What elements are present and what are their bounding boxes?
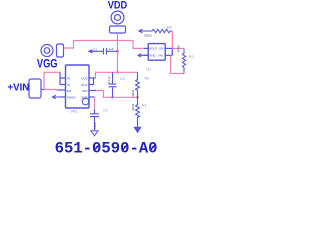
wire EN to R3 bbox=[172, 47, 184, 49]
pin VR1 OUT1 bbox=[89, 77, 96, 79]
svg-text:1uF: 1uF bbox=[108, 47, 113, 51]
pin +VIN bbox=[41, 89, 46, 91]
text VR1 pins left bbox=[67, 76, 76, 99]
pin VR1 IN2 bbox=[60, 84, 66, 86]
svg-text:VDD: VDD bbox=[108, 0, 128, 12]
resistor R1 bbox=[136, 97, 140, 124]
wire R4 to EN bbox=[171, 31, 173, 48]
svg-text:ADJ: ADJ bbox=[82, 89, 88, 93]
net flag arrow GND pin4 bbox=[53, 95, 66, 98]
wire VDD vertical bbox=[117, 33, 119, 72]
wire ADJ jog to bus bbox=[96, 91, 138, 98]
title part number bbox=[55, 140, 158, 158]
svg-text:C4: C4 bbox=[120, 77, 125, 81]
pin U1 VIN bbox=[165, 54, 172, 56]
slash zero marks bbox=[94, 144, 156, 151]
text U1 pins bbox=[149, 47, 163, 58]
pin U1 EN bbox=[165, 47, 172, 49]
svg-text:49R9: 49R9 bbox=[177, 45, 181, 53]
wire +VIN to IC bbox=[44, 72, 60, 89]
svg-text:.01uF: .01uF bbox=[93, 122, 97, 130]
node junction bus/R2 bbox=[136, 96, 139, 99]
node junction bus/C2 bbox=[111, 96, 114, 99]
capacitor C4 bbox=[109, 72, 117, 97]
pin VR1 EN bbox=[57, 89, 66, 91]
svg-text:R3: R3 bbox=[189, 55, 194, 59]
wire OUT to VDD node bbox=[96, 72, 138, 78]
svg-text:U1: U1 bbox=[147, 68, 152, 72]
connector J VGG bbox=[41, 44, 64, 57]
svg-text:IN: IN bbox=[67, 83, 70, 87]
ground C2 bbox=[91, 131, 98, 136]
svg-text:OUT: OUT bbox=[81, 83, 88, 87]
svg-text:EN: EN bbox=[160, 47, 164, 51]
connector J +VIN bbox=[29, 79, 41, 98]
wire tie EN-VIN bbox=[171, 48, 173, 55]
net flag arrow C1 bbox=[89, 50, 96, 53]
svg-text:EN: EN bbox=[67, 89, 71, 93]
svg-text:49R9: 49R9 bbox=[131, 103, 135, 111]
pin U1 VOUT bbox=[144, 47, 148, 49]
resistor R3 bbox=[182, 48, 185, 73]
pad circle VR1 bbox=[82, 98, 89, 105]
wire VIN loop to R3 bottom bbox=[171, 55, 185, 73]
IC VR1 regulator bbox=[66, 65, 90, 108]
net flag arrow U1 GND bbox=[138, 54, 148, 57]
connector J VDD bbox=[110, 11, 126, 33]
svg-text:0.1uF: 0.1uF bbox=[107, 76, 111, 84]
svg-text:BYP: BYP bbox=[81, 95, 87, 99]
svg-text:+VIN: +VIN bbox=[8, 83, 30, 94]
svg-text:IN: IN bbox=[67, 76, 70, 80]
svg-text:GND: GND bbox=[149, 54, 155, 58]
pin VR1 BYP bbox=[89, 96, 95, 98]
svg-text:R1: R1 bbox=[142, 103, 147, 107]
resistor R4 horizontal bbox=[146, 29, 172, 33]
wire tie IN1-IN2 bbox=[59, 72, 61, 84]
svg-text:R2: R2 bbox=[145, 77, 150, 81]
pin U1 GND bbox=[144, 54, 149, 56]
svg-text:C2: C2 bbox=[103, 109, 108, 113]
wire VGG run bbox=[64, 41, 145, 49]
svg-text:49R9: 49R9 bbox=[131, 89, 135, 97]
ground R1 bbox=[134, 124, 140, 132]
wire BYP to C2 bbox=[94, 97, 96, 110]
svg-text:VR1: VR1 bbox=[71, 110, 78, 114]
svg-text:651-0590-A0: 651-0590-A0 bbox=[55, 140, 158, 158]
wire tie OUT1-OUT2 bbox=[93, 78, 95, 85]
svg-text:SHDN: SHDN bbox=[67, 95, 76, 99]
node junction VDD/C1 bbox=[116, 50, 119, 53]
node junction VDD/OUT bbox=[116, 71, 119, 74]
IC U1 regulator bbox=[148, 44, 165, 61]
resistor R2 vertical bbox=[136, 72, 140, 97]
svg-text:VDD2: VDD2 bbox=[144, 34, 152, 38]
pin VR1 ADJ bbox=[89, 90, 96, 92]
svg-text:R4: R4 bbox=[167, 26, 172, 30]
svg-text:VGG: VGG bbox=[37, 57, 58, 70]
text VR1 pins right bbox=[81, 76, 88, 99]
capacitor C2 bbox=[90, 110, 99, 131]
net flag arrow R4 bbox=[139, 29, 146, 32]
svg-text:VOUT: VOUT bbox=[149, 47, 157, 51]
capacitor C1 bbox=[96, 48, 118, 54]
pin VR1 OUT2 bbox=[89, 84, 94, 86]
svg-text:VIN: VIN bbox=[158, 54, 163, 58]
svg-text:C1: C1 bbox=[93, 47, 98, 51]
svg-text:OUT: OUT bbox=[81, 76, 88, 80]
pin VR1 IN1 bbox=[60, 77, 66, 79]
pin VR1 GND bbox=[60, 96, 66, 98]
